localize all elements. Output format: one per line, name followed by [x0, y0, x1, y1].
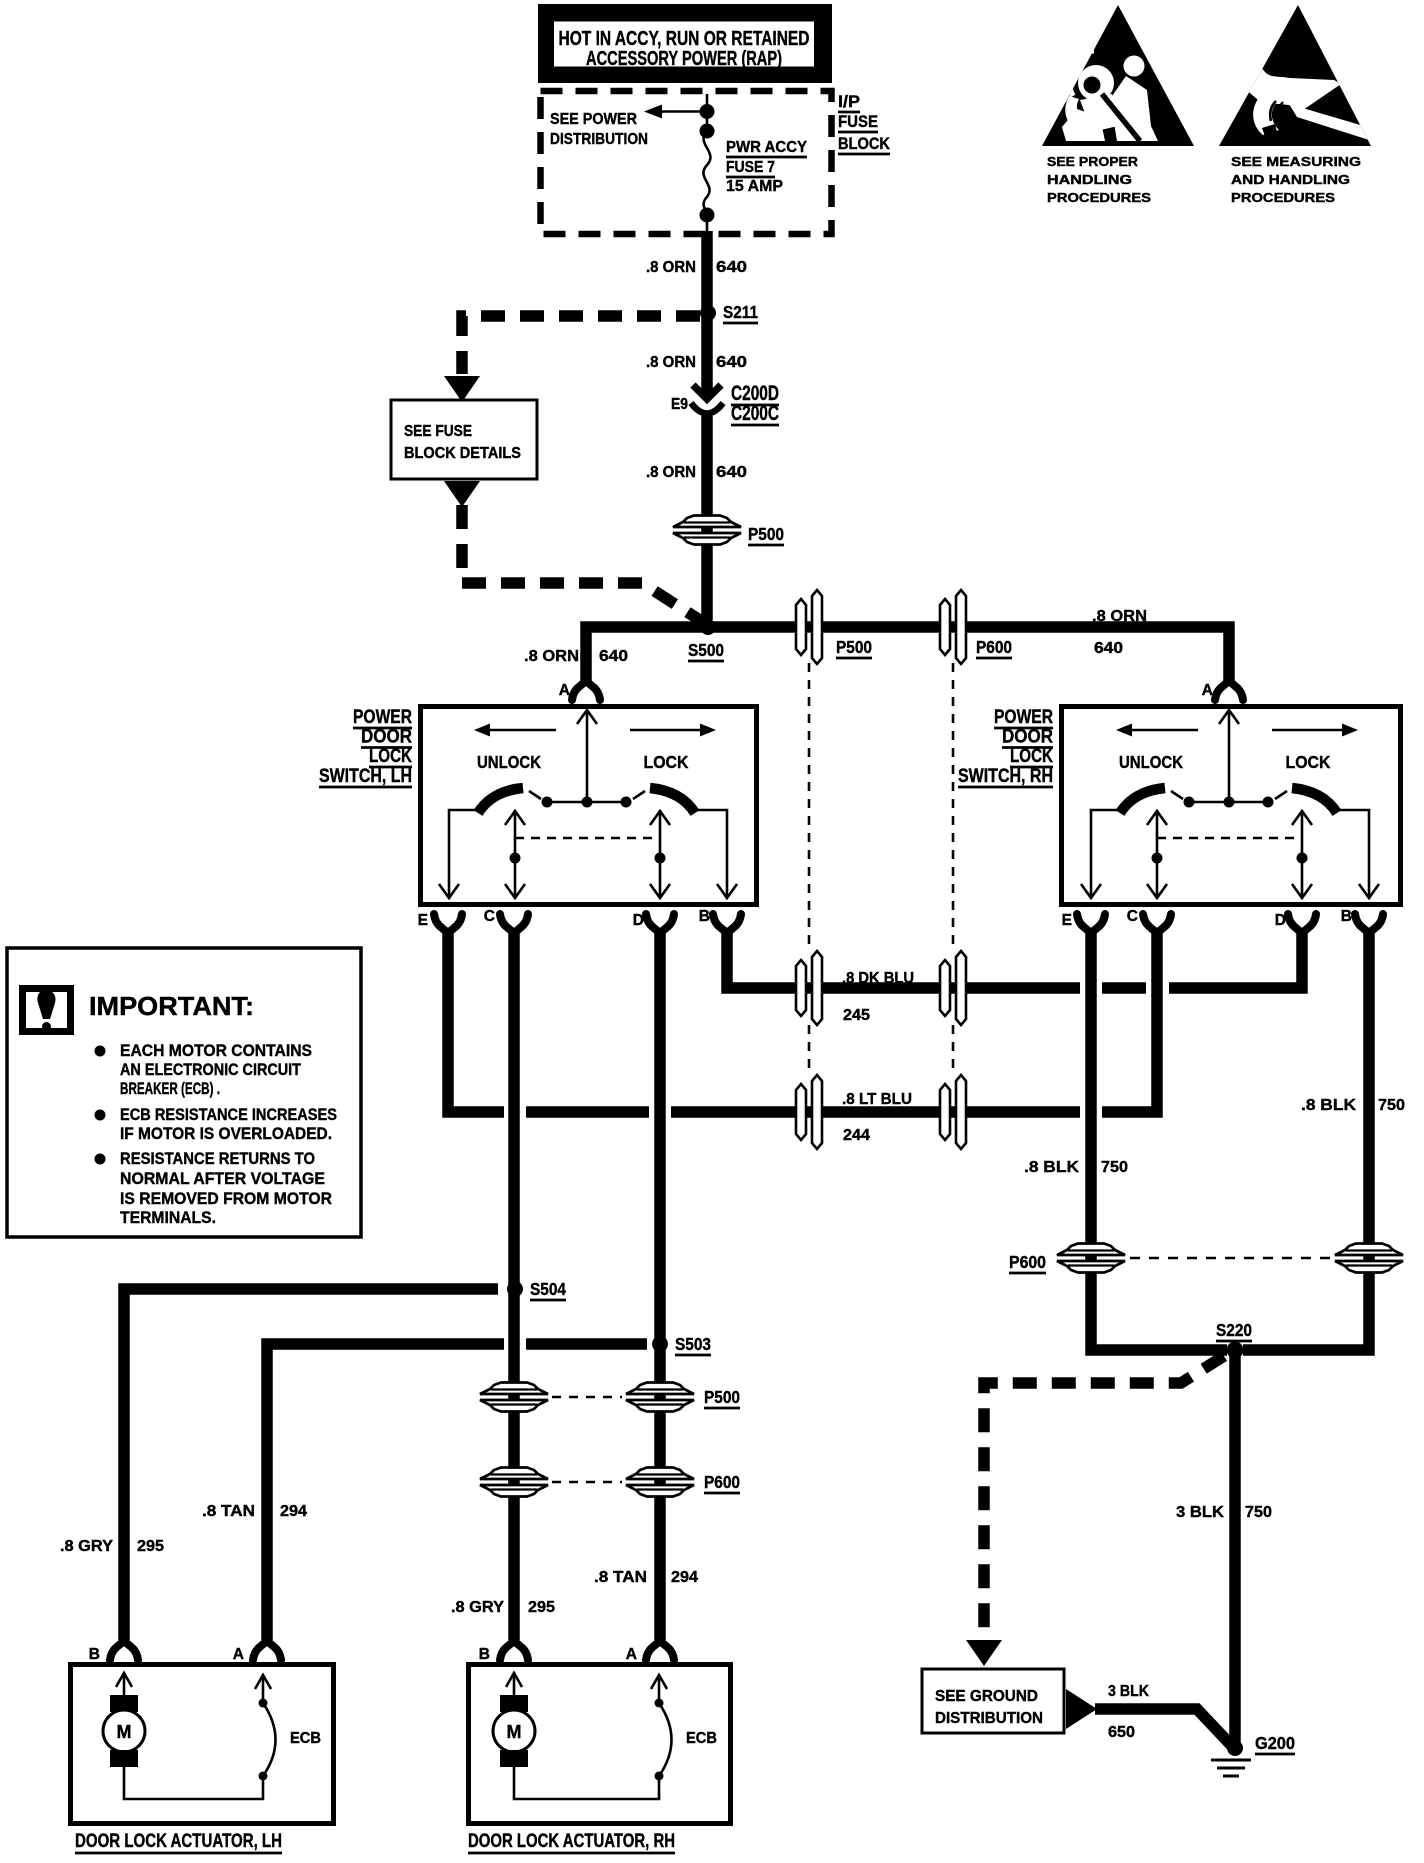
svg-text:294: 294	[280, 1503, 307, 1520]
fuse PWR ACCY FUSE 7 element squiggle	[703, 131, 710, 215]
label .8 TAN 294 (LH actuator A)	[202, 1503, 307, 1520]
svg-text:640: 640	[716, 259, 747, 276]
svg-text:EACH MOTOR CONTAINS: EACH MOTOR CONTAINS	[120, 1041, 312, 1060]
RH lock wiper	[1275, 788, 1337, 813]
I/P FUSE BLOCK label	[838, 92, 891, 154]
svg-text:640: 640	[716, 464, 747, 481]
wire LH switch B to RH switch D .8 DK BLU 245	[727, 928, 1302, 988]
terminal C of RH switch	[1143, 914, 1171, 933]
terminal A of RH actuator	[646, 1641, 674, 1660]
svg-text:640: 640	[1094, 640, 1123, 657]
svg-text:PWR ACCY: PWR ACCY	[726, 139, 807, 156]
svg-text:POWER: POWER	[994, 707, 1053, 728]
label POWER DOOR LOCK SWITCH, LH	[319, 707, 412, 787]
RH switch contact bar	[1189, 801, 1268, 804]
svg-text:3 BLK: 3 BLK	[1176, 1504, 1224, 1521]
svg-text:A: A	[626, 1646, 637, 1663]
LH terminal E internal line	[439, 810, 478, 898]
dashed link between P600 grommets	[552, 1481, 622, 1484]
see power distribution note	[550, 111, 648, 148]
terminal B of RH actuator	[500, 1641, 528, 1660]
IMPORTANT note box	[7, 948, 361, 1237]
warning triangle ESD handling icon	[1219, 5, 1372, 146]
wire S504 to LH actuator B	[124, 1289, 498, 1640]
label .8 GRY 295 (RH actuator B)	[451, 1599, 555, 1616]
svg-text:.8 LT BLU: .8 LT BLU	[842, 1091, 912, 1108]
svg-text:RESISTANCE RETURNS TO: RESISTANCE RETURNS TO	[120, 1149, 315, 1168]
splice S220	[1227, 1342, 1244, 1359]
label .8 DK BLU 245	[842, 970, 914, 1024]
power door lock switch LH box	[421, 707, 757, 905]
grommet P600 on tan wire	[626, 1468, 694, 1497]
svg-text:750: 750	[1101, 1159, 1128, 1176]
label P600 (bus)	[976, 637, 1012, 658]
warning triangle SIR handling icon	[1042, 5, 1194, 146]
svg-text:P600: P600	[976, 637, 1012, 657]
svg-text:S220: S220	[1216, 1320, 1252, 1340]
svg-text:SEE PROPER: SEE PROPER	[1047, 154, 1139, 169]
wire ground distribution to G200 3 BLK 650	[1095, 1709, 1231, 1745]
svg-text:BREAKER (ECB) .: BREAKER (ECB) .	[120, 1079, 220, 1098]
LH contact dot left	[542, 797, 553, 808]
terminal C of LH switch	[500, 914, 528, 933]
svg-text:E: E	[418, 912, 428, 929]
terminal D of LH switch	[646, 914, 674, 933]
svg-text:UNLOCK: UNLOCK	[1119, 752, 1183, 772]
SEE FUSE BLOCK DETAILS box	[391, 400, 537, 479]
svg-text:A: A	[233, 1646, 244, 1663]
svg-text:S503: S503	[675, 1334, 711, 1354]
bullet ecb resistance increases	[95, 1105, 338, 1143]
svg-text:B: B	[89, 1646, 100, 1663]
arrow to see power distribution	[644, 105, 707, 119]
svg-text:D: D	[1275, 912, 1286, 929]
splice S211	[700, 305, 716, 321]
svg-text:.8 ORN: .8 ORN	[1092, 608, 1147, 625]
svg-text:BLOCK DETAILS: BLOCK DETAILS	[404, 445, 521, 462]
terminal D of RH switch	[1288, 914, 1316, 933]
RH actuator B feed arrow	[506, 1673, 522, 1695]
splice S500	[700, 619, 716, 635]
exclamation icon	[23, 989, 71, 1032]
svg-text:.8 BLK: .8 BLK	[1024, 1159, 1079, 1176]
wire S503 to LH actuator A	[267, 1344, 647, 1640]
svg-text:POWER: POWER	[353, 707, 412, 728]
wire RH switch E to S220 .8 BLK 750	[1091, 928, 1227, 1350]
svg-text:A: A	[1202, 682, 1213, 699]
svg-text:750: 750	[1245, 1504, 1272, 1521]
LH terminal D internal line	[650, 811, 670, 898]
svg-text:.8 BLK: .8 BLK	[1301, 1097, 1356, 1114]
grommet P500 on lt blu wire	[796, 1075, 822, 1149]
svg-text:LOCK: LOCK	[644, 752, 689, 772]
svg-text:IMPORTANT:: IMPORTANT:	[89, 991, 254, 1021]
label S504	[530, 1279, 566, 1300]
svg-text:NORMAL AFTER VOLTAGE: NORMAL AFTER VOLTAGE	[120, 1169, 325, 1188]
label DOOR LOCK ACTUATOR, RH	[468, 1831, 675, 1853]
svg-text:650: 650	[1108, 1724, 1135, 1741]
bullet each motor contains	[95, 1041, 313, 1098]
label .8 ORN 640 (second)	[646, 354, 747, 371]
svg-text:SEE GROUND: SEE GROUND	[935, 1688, 1038, 1705]
svg-text:640: 640	[716, 354, 747, 371]
terminal A of RH switch	[1215, 681, 1243, 700]
svg-text:PROCEDURES: PROCEDURES	[1047, 190, 1151, 205]
label .8 ORN 640 to LH switch	[524, 648, 628, 665]
LH switch common feed line with up arrow	[577, 710, 597, 800]
svg-text:DISTRIBUTION: DISTRIBUTION	[935, 1710, 1043, 1727]
motor M of RH actuator	[493, 1695, 535, 1767]
motor M of LH actuator	[103, 1695, 145, 1767]
LH terminal C internal line	[505, 811, 525, 898]
arrow into see fuse block details box	[444, 376, 480, 402]
label POWER DOOR LOCK SWITCH, RH	[958, 707, 1053, 787]
svg-text:P500: P500	[836, 637, 872, 657]
door lock actuator LH box	[71, 1665, 334, 1824]
grommet P500 on vertical feed	[673, 516, 741, 545]
svg-text:LOCK: LOCK	[1286, 752, 1331, 772]
terminal E of LH switch	[434, 914, 462, 933]
svg-text:.8 ORN: .8 ORN	[646, 464, 696, 481]
svg-text:.8 TAN: .8 TAN	[594, 1569, 647, 1586]
svg-text:HANDLING: HANDLING	[1047, 172, 1132, 187]
svg-text:C: C	[1127, 908, 1138, 925]
dashed wire from fuse block details to S500	[462, 505, 706, 624]
svg-text:SEE POWER: SEE POWER	[550, 111, 637, 128]
terminal B of RH switch	[1355, 914, 1383, 933]
svg-text:640: 640	[599, 648, 628, 665]
svg-text:.8 ORN: .8 ORN	[646, 354, 696, 371]
PWR ACCY FUSE 7 15 AMP label	[726, 139, 807, 195]
SEE GROUND DISTRIBUTION box	[922, 1669, 1064, 1733]
svg-text:S504: S504	[530, 1279, 566, 1299]
wire S220 to G200 3 BLK 750	[1229, 1350, 1241, 1744]
terminal B of LH switch	[713, 914, 741, 933]
svg-text:PROCEDURES: PROCEDURES	[1231, 190, 1335, 205]
wire RH switch B to S220 .8 BLK 750	[1243, 928, 1369, 1350]
svg-text:TERMINALS.: TERMINALS.	[120, 1208, 216, 1227]
svg-text:750: 750	[1378, 1097, 1405, 1114]
RH terminal E internal line	[1081, 810, 1120, 898]
wire LH switch C down to RH actuator B .8 GRY 295	[508, 928, 520, 1640]
svg-text:295: 295	[528, 1599, 555, 1616]
LH switch contact bar	[547, 801, 626, 804]
svg-text:ECB: ECB	[290, 1730, 321, 1747]
svg-text:FUSE: FUSE	[838, 112, 878, 131]
svg-text:295: 295	[137, 1538, 164, 1555]
label P500 (vertical feed)	[748, 524, 784, 545]
grommet P600 on dk blu wire	[940, 951, 966, 1025]
svg-text:LOCK: LOCK	[369, 746, 412, 767]
ECB of RH actuator	[651, 1675, 672, 1781]
RH lock direction arrow	[1272, 724, 1358, 737]
RH contact dot right	[1263, 797, 1274, 808]
svg-text:DOOR LOCK ACTUATOR, RH: DOOR LOCK ACTUATOR, RH	[468, 1831, 675, 1852]
label .8 ORN 640 (third)	[646, 464, 747, 481]
RH contact dot left	[1184, 797, 1195, 808]
dashed link between P600 grommets	[1130, 1257, 1330, 1260]
label .8 LT BLU 244	[842, 1091, 912, 1144]
label P600 (blk wires)	[1009, 1252, 1046, 1273]
arrow out of ground distribution box	[1066, 1689, 1097, 1729]
svg-text:IS REMOVED FROM MOTOR: IS REMOVED FROM MOTOR	[120, 1189, 332, 1208]
fuse top terminal dot	[700, 124, 715, 139]
svg-text:ECB: ECB	[686, 1730, 717, 1747]
svg-text:S211: S211	[723, 302, 758, 322]
svg-text:SEE MEASURING: SEE MEASURING	[1231, 154, 1361, 169]
label 3 BLK 650	[1108, 1683, 1149, 1741]
label 3 BLK 750	[1176, 1504, 1272, 1521]
LH unlock direction arrow	[474, 724, 556, 737]
wire E9 to P500 .8 ORN 640	[701, 416, 713, 620]
connector E9 C200D C200C	[691, 385, 723, 414]
wire LH switch D down to RH actuator A .8 TAN 294	[654, 928, 666, 1640]
ECB of LH actuator	[255, 1675, 276, 1781]
svg-text:SWITCH, RH: SWITCH, RH	[958, 766, 1053, 787]
bullet resistance returns to normal	[95, 1149, 333, 1227]
label S503	[675, 1334, 711, 1355]
LH actuator B feed arrow	[116, 1673, 132, 1695]
svg-text:UNLOCK: UNLOCK	[477, 752, 541, 772]
svg-text:P600: P600	[704, 1472, 740, 1492]
LH contact dot right	[621, 797, 632, 808]
svg-text:M: M	[507, 1722, 522, 1742]
svg-text:.8 GRY: .8 GRY	[60, 1538, 113, 1555]
LH terminal B internal line	[696, 810, 737, 898]
RH contact dot center	[1224, 797, 1235, 808]
RH terminal B internal line	[1338, 810, 1379, 898]
arrow into see ground distribution box	[966, 1640, 1002, 1666]
svg-text:DOOR LOCK ACTUATOR, LH: DOOR LOCK ACTUATOR, LH	[75, 1831, 282, 1852]
svg-text:B: B	[699, 908, 710, 925]
label S500	[688, 640, 724, 661]
grommet P500 on bus	[796, 590, 822, 664]
label C200D C200C	[731, 382, 779, 425]
svg-text:D: D	[633, 912, 644, 929]
label P500 (actuator harness)	[704, 1387, 740, 1408]
svg-text:.8 ORN: .8 ORN	[524, 648, 579, 665]
svg-text:294: 294	[671, 1569, 698, 1586]
label G200	[1255, 1733, 1295, 1754]
svg-text:DOOR: DOOR	[361, 727, 412, 748]
grommet P600 on B blk wire	[1335, 1244, 1403, 1273]
svg-text:P500: P500	[748, 524, 784, 544]
LH lock wiper	[633, 788, 695, 813]
svg-text:S500: S500	[688, 640, 724, 660]
svg-text:244: 244	[843, 1127, 870, 1144]
terminal E of RH switch	[1077, 914, 1105, 933]
svg-text:G200: G200	[1255, 1733, 1295, 1753]
terminal A of LH switch	[572, 681, 600, 700]
RH switch internal dashed link	[1157, 837, 1302, 840]
svg-text:E9: E9	[671, 396, 688, 413]
svg-text:AND HANDLING: AND HANDLING	[1231, 172, 1350, 187]
svg-text:E: E	[1062, 912, 1072, 929]
LH actuator internal wire	[124, 1767, 263, 1799]
grommet P500 on gry wire	[480, 1383, 548, 1412]
grommet P600 on bus	[940, 590, 966, 664]
svg-text:.8 ORN: .8 ORN	[646, 259, 696, 276]
node dot at arrow branch	[700, 104, 715, 119]
wire from fuse to box edge	[706, 215, 709, 231]
svg-text:SEE FUSE: SEE FUSE	[404, 423, 472, 440]
svg-text:.8 GRY: .8 GRY	[451, 1599, 504, 1616]
svg-text:BLOCK: BLOCK	[838, 134, 891, 153]
splice S503	[652, 1336, 668, 1352]
dashed wire S220 to ground distribution	[984, 1356, 1224, 1638]
wire fuse block to E9 .8 ORN 640	[701, 231, 713, 396]
label S220	[1216, 1320, 1252, 1341]
svg-text:C: C	[484, 908, 495, 925]
svg-text:3 BLK: 3 BLK	[1108, 1683, 1149, 1700]
dashed branch wire from S211 to fuse block details	[462, 316, 700, 374]
svg-text:.8 DK BLU: .8 DK BLU	[842, 970, 914, 987]
svg-text:LOCK: LOCK	[1010, 746, 1053, 767]
svg-text:DISTRIBUTION: DISTRIBUTION	[550, 131, 648, 148]
svg-text:ACCESSORY POWER (RAP): ACCESSORY POWER (RAP)	[586, 48, 782, 70]
dashed harness line below P600 bus grommet	[952, 663, 955, 1075]
svg-text:P500: P500	[704, 1387, 740, 1407]
svg-text:I/P: I/P	[838, 92, 860, 111]
RH terminal D internal line	[1292, 811, 1312, 898]
LH contact dot center	[582, 797, 593, 808]
svg-text:15 AMP: 15 AMP	[726, 178, 783, 195]
svg-text:A: A	[559, 682, 570, 699]
main feed bus wire from S500	[586, 627, 1229, 684]
svg-text:.8 TAN: .8 TAN	[202, 1503, 255, 1520]
dashed harness line below P500 bus grommet	[808, 663, 811, 1075]
caption SEE PROPER HANDLING PROCEDURES	[1047, 154, 1151, 205]
grommet P600 on gry wire	[480, 1468, 548, 1497]
svg-text:SWITCH, LH: SWITCH, LH	[319, 766, 412, 787]
label .8 ORN 640 (first)	[646, 259, 747, 276]
arrow out of see fuse block details box	[444, 481, 480, 507]
svg-text:B: B	[479, 1646, 490, 1663]
label .8 BLK 750 (B side)	[1301, 1097, 1405, 1114]
RH unlock wiper	[1120, 788, 1183, 813]
fuse bottom terminal dot	[700, 208, 715, 223]
RH terminal C internal line	[1147, 811, 1167, 898]
terminal B of LH actuator	[110, 1641, 138, 1660]
grommet P600 on lt blu wire	[940, 1075, 966, 1149]
label .8 TAN 294 (RH actuator A)	[594, 1569, 698, 1586]
svg-text:245: 245	[843, 1007, 870, 1024]
power door lock switch RH box	[1062, 707, 1401, 905]
svg-text:ECB RESISTANCE INCREASES: ECB RESISTANCE INCREASES	[120, 1105, 337, 1124]
label .8 ORN 640 to RH switch	[1092, 608, 1147, 657]
grommet P600 on E blk wire	[1057, 1244, 1125, 1273]
svg-text:P600: P600	[1009, 1252, 1046, 1272]
svg-text:IF MOTOR IS OVERLOADED.: IF MOTOR IS OVERLOADED.	[120, 1124, 332, 1143]
svg-text:M: M	[117, 1722, 132, 1742]
grommet P500 on tan wire	[626, 1383, 694, 1412]
svg-text:AN ELECTRONIC CIRCUIT: AN ELECTRONIC CIRCUIT	[120, 1060, 302, 1079]
label S211	[723, 302, 758, 323]
wire LH switch E to RH switch C .8 LT BLU 244	[448, 928, 1157, 1112]
svg-text:FUSE 7: FUSE 7	[726, 159, 775, 176]
label .8 GRY 295 (LH actuator B)	[60, 1538, 164, 1555]
dashed link between P500 grommets	[552, 1396, 622, 1399]
terminal A of LH actuator	[253, 1641, 281, 1660]
caption SEE MEASURING AND HANDLING PROCEDURES	[1231, 154, 1361, 205]
LH switch internal dashed link	[515, 837, 660, 840]
label DOOR LOCK ACTUATOR, LH	[75, 1831, 282, 1853]
svg-text:DOOR: DOOR	[1002, 727, 1053, 748]
power feed banner HOT IN ACCY	[538, 4, 832, 83]
door lock actuator RH box	[469, 1665, 731, 1824]
label P600 (actuator harness)	[704, 1472, 740, 1493]
label P500 (bus)	[836, 637, 872, 658]
RH unlock direction arrow	[1116, 724, 1198, 737]
ground G200	[1211, 1740, 1251, 1776]
svg-text:HOT IN ACCY, RUN OR RETAINED: HOT IN ACCY, RUN OR RETAINED	[559, 28, 810, 50]
LH unlock wiper	[478, 788, 541, 813]
svg-text:C200C: C200C	[731, 402, 779, 425]
LH lock direction arrow	[630, 724, 716, 737]
wire inside fuse block	[706, 94, 709, 131]
RH actuator internal wire	[514, 1767, 659, 1799]
label .8 BLK 750 (E side)	[1024, 1159, 1128, 1176]
RH switch common feed line with up arrow	[1219, 710, 1239, 800]
splice S504	[507, 1281, 523, 1297]
I/P fuse block dashed box	[541, 91, 832, 234]
grommet P500 on dk blu wire	[796, 951, 822, 1025]
svg-text:B: B	[1341, 908, 1352, 925]
